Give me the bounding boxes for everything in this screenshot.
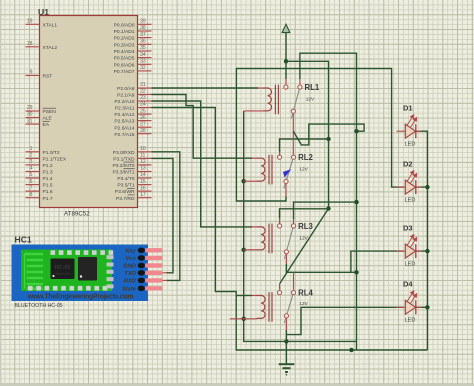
svg-text:18: 18	[27, 41, 33, 47]
relay RL1 core bars	[275, 85, 278, 115]
svg-text:10: 10	[140, 146, 146, 152]
svg-text:37: 37	[140, 32, 146, 38]
svg-text:P3.6/WR: P3.6/WR	[115, 189, 135, 195]
wire vcc to RL1 NC throw	[285, 61, 287, 79]
pin 29 PSEN lead	[26, 110, 40, 112]
svg-text:P0.1/AD1: P0.1/AD1	[114, 29, 135, 35]
svg-text:14: 14	[140, 172, 146, 178]
svg-text:XTAL2: XTAL2	[43, 45, 58, 51]
junction vcc node	[284, 59, 288, 63]
svg-text:35: 35	[140, 45, 146, 51]
svg-text:P1.1/T2EX: P1.1/T2EX	[43, 157, 67, 163]
svg-text:LED: LED	[405, 141, 416, 147]
red stubs at HC1 pins	[162, 273, 167, 281]
svg-text:2: 2	[30, 153, 33, 159]
svg-text:D3: D3	[403, 223, 413, 232]
svg-text:EA: EA	[43, 122, 50, 128]
HC1 pin Key	[138, 248, 145, 254]
svg-text:LED: LED	[405, 261, 416, 267]
pin 10 P3.0/RXD lead	[138, 151, 152, 153]
pin 32 P0.7/AD7 lead	[138, 70, 152, 72]
pin 36 P0.3/AD3 lead	[138, 43, 152, 45]
pin 21 P2.0/A8 lead	[138, 87, 152, 89]
wire LED cathode rail	[415, 131, 427, 350]
svg-text:9: 9	[30, 70, 33, 76]
pin 33 P0.6/AD6 lead	[138, 63, 152, 65]
pin 27 P2.6/A14 lead	[138, 126, 152, 128]
relay RL4 coil	[257, 295, 265, 318]
svg-text:28: 28	[140, 128, 146, 134]
svg-text:P0.7/AD7: P0.7/AD7	[114, 69, 135, 75]
wire RL3 pole to chain and D3	[285, 254, 287, 264]
HC1 pin TXD	[138, 270, 145, 276]
svg-text:RL3: RL3	[298, 222, 313, 231]
wire RL3 NC up to vcc node	[279, 218, 281, 225]
svg-text:P3.2/INT0: P3.2/INT0	[112, 163, 134, 169]
svg-text:HC-05: HC-05	[55, 265, 71, 271]
svg-text:P1.0/T2: P1.0/T2	[43, 150, 60, 156]
junction rail RL4 coil	[242, 317, 246, 321]
svg-text:AT89C52: AT89C52	[64, 211, 90, 218]
wire P3.1 pin11 to HC1 TXD	[152, 158, 174, 272]
page edge shading	[0, 0, 1, 386]
relay RL2 pole contact	[284, 179, 288, 183]
relay RL2 coil	[257, 158, 265, 181]
junction mega rail at RL3 pole node	[354, 270, 358, 274]
coil bottom red leads	[244, 110, 264, 112]
svg-text:5: 5	[30, 172, 33, 178]
svg-text:16: 16	[140, 185, 146, 191]
INT1 overline	[123, 168, 134, 170]
svg-text:38: 38	[140, 25, 146, 31]
svg-text:P0.6/AD6: P0.6/AD6	[114, 62, 135, 68]
INT0 overline	[123, 161, 134, 163]
HC1 antenna meander	[25, 254, 44, 289]
junction on vcc rail lower node	[326, 206, 330, 210]
svg-text:P3.3/INT1: P3.3/INT1	[112, 170, 134, 176]
relay RL2 arm	[284, 159, 293, 188]
svg-text:13: 13	[140, 166, 146, 172]
svg-text:P0.2/AD2: P0.2/AD2	[114, 36, 135, 42]
svg-text:1: 1	[30, 146, 33, 152]
svg-text:26: 26	[140, 115, 146, 121]
svg-text:P2.0/A8: P2.0/A8	[117, 86, 135, 92]
svg-text:P2.4/A12: P2.4/A12	[114, 112, 134, 118]
svg-text:P3.1/TXD: P3.1/TXD	[113, 157, 135, 163]
svg-text:3: 3	[30, 159, 33, 165]
svg-text:D4: D4	[403, 280, 413, 289]
relay RL2 core bars	[269, 155, 272, 185]
relay RL3 core bars	[269, 224, 272, 254]
svg-text:7: 7	[30, 185, 33, 191]
pin 35 P0.4/AD4 lead	[138, 50, 152, 52]
wire Z tap to D1 anode node	[293, 124, 364, 145]
wire RL4 coil top tap	[236, 295, 252, 297]
pin 22 P2.1/A9 lead	[138, 94, 152, 96]
svg-text:LED: LED	[405, 197, 416, 203]
HC1 pin RXD	[138, 278, 145, 284]
pin 38 P0.1/AD1 lead	[138, 30, 152, 32]
pin 4 P1.3 lead	[26, 171, 40, 173]
wire P2.1 pin22 to RL2 coil	[152, 95, 253, 159]
pin 1 P1.0/T2 lead	[26, 151, 40, 153]
pin 26 P2.5/A13 lead	[138, 120, 152, 122]
svg-text:4: 4	[30, 166, 33, 172]
svg-text:12V: 12V	[299, 235, 308, 241]
svg-text:State: State	[122, 286, 137, 292]
svg-text:RL2: RL2	[298, 153, 313, 162]
microcontroller U1 AT89C52 body	[40, 16, 138, 208]
junction rail RL3 coil	[242, 248, 246, 252]
svg-text:D2: D2	[403, 159, 413, 168]
pin 30 ALE lead	[26, 117, 40, 119]
relay RL2 actuated blue arrow	[283, 169, 291, 177]
wire D4 anode hook	[286, 307, 403, 334]
EA overline	[43, 120, 50, 122]
LED D1 symbol	[397, 130, 422, 132]
junction rail RL2 coil	[242, 179, 246, 183]
LED D2 symbol	[397, 186, 422, 188]
HC1 pin State	[138, 286, 145, 292]
svg-text:39: 39	[140, 19, 146, 25]
svg-text:22: 22	[140, 89, 146, 95]
svg-text:P1.7: P1.7	[43, 196, 53, 202]
pin 5 P1.4 lead	[26, 177, 40, 179]
pin 3 P1.2 lead	[26, 164, 40, 166]
wire RL1 NO throw up and over	[299, 79, 301, 84]
junction D1 node	[354, 129, 358, 133]
svg-text:LED: LED	[405, 318, 416, 324]
svg-text:P0.4/AD4: P0.4/AD4	[114, 49, 135, 55]
svg-text:24: 24	[140, 102, 146, 108]
cathode leads	[415, 187, 427, 307]
PSEN overline	[43, 107, 57, 109]
svg-text:27: 27	[140, 121, 146, 127]
svg-text:P1.6: P1.6	[43, 189, 53, 195]
svg-text:P0.0/AD0: P0.0/AD0	[114, 22, 135, 28]
svg-text:ALE: ALE	[43, 116, 53, 122]
svg-text:P3.5/T1: P3.5/T1	[117, 183, 134, 189]
wire P2.3 pin24 to RL4 coil area and LED cathode return	[152, 108, 428, 351]
svg-text:P2.1/A9: P2.1/A9	[117, 93, 135, 99]
svg-text:GND: GND	[123, 264, 137, 270]
pin 17 P3.7/RD lead	[138, 197, 152, 199]
svg-text:15: 15	[140, 179, 146, 185]
wire vcc rail right and down	[286, 61, 329, 208]
relay RL3 throw contacts	[277, 224, 281, 228]
wire RL4 pole to ground	[285, 318, 287, 330]
coil top red leads	[258, 87, 263, 89]
pin 7 P1.6 lead	[26, 190, 40, 192]
svg-text:31: 31	[27, 118, 33, 124]
svg-text:29: 29	[27, 105, 33, 111]
ground	[279, 364, 295, 375]
svg-text:12V: 12V	[299, 301, 308, 307]
junction mega rail bottom node	[349, 348, 353, 352]
svg-text:34: 34	[140, 52, 146, 58]
svg-text:Key: Key	[125, 248, 136, 254]
svg-text:P3.7/RD: P3.7/RD	[116, 196, 135, 202]
pin 6 P1.5 lead	[26, 184, 40, 186]
svg-text:P1.3: P1.3	[43, 170, 53, 176]
HC1 pads top	[51, 250, 56, 255]
LED D2 arrows	[407, 171, 417, 184]
svg-text:21: 21	[140, 82, 146, 88]
pin 19 XTAL1 lead	[26, 23, 40, 25]
junction cathode D3	[425, 249, 429, 253]
junction cathode D4	[425, 305, 429, 309]
svg-text:12V: 12V	[299, 167, 308, 173]
pin 24 P2.3/A11 lead	[138, 107, 152, 109]
LED D4 arrows	[407, 291, 417, 304]
svg-text:P1.5: P1.5	[43, 183, 53, 189]
junction on vcc rail at RL2 NC wire	[326, 137, 330, 141]
relay RL4 pole contact	[284, 314, 288, 318]
svg-text:XTAL1: XTAL1	[43, 22, 58, 28]
svg-text:23: 23	[140, 95, 146, 101]
pin 34 P0.5/AD5 lead	[138, 57, 152, 59]
wire D3 anode stub	[351, 251, 404, 272]
junction mega rail at RL3 NO node	[354, 200, 358, 204]
relay RL2 throw contacts	[277, 155, 281, 159]
wire RL2 NC up to vcc rail	[279, 152, 281, 156]
svg-text:25: 25	[140, 108, 146, 114]
pin 9 RST lead	[26, 75, 40, 77]
svg-text:P0.3/AD3: P0.3/AD3	[114, 42, 135, 48]
svg-text:12V: 12V	[306, 97, 315, 103]
svg-text:11: 11	[140, 153, 145, 159]
svg-text:P2.2/A10: P2.2/A10	[114, 99, 134, 105]
relay RL4 core bars	[269, 292, 272, 322]
svg-text:RST: RST	[43, 74, 53, 80]
svg-text:Bluetooth: Bluetooth	[56, 272, 70, 276]
HC1 bluetooth module board	[12, 245, 149, 302]
svg-text:P2.5/A13: P2.5/A13	[114, 119, 134, 125]
LED D3 symbol	[397, 250, 422, 252]
svg-text:www.TheEngineeringProjects.com: www.TheEngineeringProjects.com	[27, 293, 134, 300]
svg-text:P3.0/RXD: P3.0/RXD	[113, 150, 135, 156]
LED D4 symbol	[397, 306, 422, 308]
pin 15 P3.5/T1 lead	[138, 184, 152, 186]
WR overline	[127, 187, 135, 189]
LED D1 arrows	[407, 115, 417, 128]
power vcc arrow	[282, 24, 290, 32]
pin 16 P3.6/WR lead	[138, 190, 152, 192]
HC1 right pads	[107, 255, 114, 259]
HC1 green PCB	[21, 250, 112, 292]
wire chain RL1 pole to RL2 NO throw	[292, 113, 294, 155]
pin 12 P3.2/INT0 lead	[138, 164, 152, 166]
pin 2 P1.1/T2EX lead	[26, 157, 40, 159]
wire relay coil common rail	[244, 111, 357, 342]
svg-text:17: 17	[140, 192, 146, 198]
svg-text:30: 30	[27, 112, 33, 118]
svg-text:RL1: RL1	[305, 83, 320, 92]
svg-text:19: 19	[27, 19, 33, 25]
svg-text:36: 36	[140, 39, 146, 45]
svg-text:P1.4: P1.4	[43, 176, 53, 182]
pin 13 P3.3/INT1 lead	[138, 171, 152, 173]
relay RL3 pole contact	[284, 250, 288, 254]
relay RL1 coil	[263, 88, 271, 111]
svg-text:HC1: HC1	[15, 235, 32, 245]
svg-text:32: 32	[140, 65, 146, 71]
svg-text:8: 8	[30, 192, 33, 198]
relay RL3 arm	[284, 228, 293, 259]
wire P3.0 pin10 to HC1 RXD	[152, 152, 180, 281]
pin 23 P2.2/A10 lead	[138, 100, 152, 102]
svg-text:BLUETOOTH HC-05: BLUETOOTH HC-05	[15, 303, 63, 309]
HC1 chip HC-05	[51, 259, 75, 280]
pin 28 P2.7/A15 lead	[138, 133, 152, 135]
relay RL4 arm	[284, 295, 293, 323]
svg-text:D1: D1	[403, 103, 413, 112]
relay RL1 pole contact	[291, 109, 295, 113]
pin 11 P3.1/TXD lead	[138, 157, 152, 159]
svg-text:U1: U1	[38, 7, 49, 17]
svg-text:P1.2: P1.2	[43, 163, 53, 169]
svg-text:P2.6/A14: P2.6/A14	[114, 125, 134, 131]
pin 39 P0.0/AD0 lead	[138, 23, 152, 25]
svg-text:TXD: TXD	[124, 271, 136, 277]
HC1 pin GND	[138, 263, 145, 269]
HC1 pin Vcc	[138, 255, 145, 261]
relay RL1 throw contacts	[284, 85, 288, 89]
HC1 chip 2	[78, 257, 97, 281]
relay RL4 throw contacts	[277, 291, 281, 295]
pin 14 P3.4/T0 lead	[138, 177, 152, 179]
svg-text:33: 33	[140, 59, 146, 65]
svg-text:P3.4/T0: P3.4/T0	[117, 176, 134, 182]
pin 31 EA lead	[26, 123, 40, 125]
junction cathode D2	[425, 185, 429, 189]
pin 37 P0.2/AD2 lead	[138, 37, 152, 39]
wire P2.2 pin23 to RL3 coil	[152, 101, 253, 227]
relay RL1 arm	[291, 89, 299, 118]
wire diagonal vcc node to RL4 NC	[280, 209, 329, 284]
pin 25 P2.4/A12 lead	[138, 113, 152, 115]
svg-text:RL4: RL4	[298, 289, 313, 298]
svg-text:P2.7/A15: P2.7/A15	[114, 132, 134, 138]
wire RL3 NO up to mega rail	[293, 219, 295, 225]
svg-text:6: 6	[30, 179, 33, 185]
svg-text:PSEN: PSEN	[43, 109, 57, 115]
wire P2.0 pin21 to RL1 coil	[152, 87, 259, 89]
svg-text:RXD: RXD	[124, 278, 137, 284]
RD overline	[128, 194, 135, 196]
junction ground node	[284, 339, 288, 343]
relay RL3 coil	[257, 227, 265, 250]
LED D3 arrows	[407, 235, 417, 248]
wire RL2 pole to top rail and D2 anode	[285, 184, 287, 197]
pin 18 XTAL2 lead	[26, 46, 40, 48]
svg-text:Vcc: Vcc	[126, 256, 137, 262]
pin 8 P1.7 lead	[26, 197, 40, 199]
svg-text:12: 12	[140, 159, 146, 165]
HC1 pads bottom	[28, 286, 33, 291]
svg-text:P0.5/AD5: P0.5/AD5	[114, 56, 135, 62]
svg-text:P2.3/A11: P2.3/A11	[115, 106, 135, 112]
